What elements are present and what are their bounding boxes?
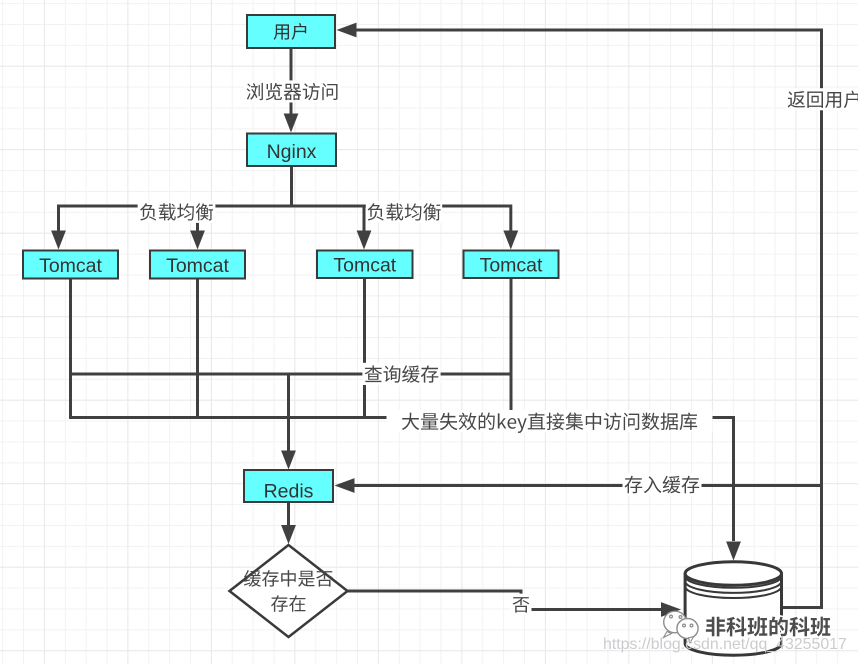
box Nginx xyxy=(247,134,336,167)
label 大量失效的key直接集中访问数据库 xyxy=(387,410,713,433)
svg-text:Tomcat: Tomcat xyxy=(333,255,396,277)
wire 用户 to Nginx xyxy=(284,48,299,133)
database cylinder xyxy=(685,562,781,655)
wire 存入缓存 DB to Redis xyxy=(335,478,822,493)
wire Tomcat3 down xyxy=(363,278,366,420)
box Tomcat 4 xyxy=(464,251,559,279)
wire Tomcat4 down xyxy=(510,278,513,420)
box Redis xyxy=(244,470,333,503)
label 负载均衡右 xyxy=(366,201,442,223)
svg-text:https://blog.csdn.net/qq_43255: https://blog.csdn.net/qq_43255017 xyxy=(603,636,847,653)
box 用户 xyxy=(247,15,335,48)
wire Nginx to Tomcat distribution xyxy=(51,166,518,250)
watermark wechat logo xyxy=(664,611,699,643)
wire return DB to 用户 (返回用户 path) xyxy=(337,23,822,608)
watermark url xyxy=(603,636,847,653)
svg-text:Nginx: Nginx xyxy=(267,141,317,163)
label 返回用户 xyxy=(786,88,858,110)
box Tomcat 2 xyxy=(150,251,245,279)
wire line B 大量失效 to database xyxy=(71,418,741,561)
svg-text:Redis: Redis xyxy=(264,481,314,503)
box Tomcat 1 xyxy=(23,251,118,279)
wire merge line A 查询缓存 xyxy=(71,373,512,376)
label 浏览器访问 xyxy=(244,80,341,102)
label 否 xyxy=(511,594,532,615)
svg-text:Tomcat: Tomcat xyxy=(480,255,543,277)
svg-text:Tomcat: Tomcat xyxy=(166,255,229,277)
wire 否 diamond to database xyxy=(348,591,682,617)
label 存入缓存 xyxy=(623,473,702,495)
label 负载均衡左 xyxy=(138,201,216,223)
decision diamond 缓存中是否存在 xyxy=(230,545,348,637)
label 查询缓存 xyxy=(362,363,440,385)
wire Tomcat1 down xyxy=(69,279,72,420)
wire Tomcat2 down xyxy=(196,279,199,420)
svg-text:Tomcat: Tomcat xyxy=(39,255,102,277)
wire line A to Redis xyxy=(281,374,296,470)
wire Redis to diamond xyxy=(281,502,296,544)
box Tomcat 3 xyxy=(317,251,413,279)
watermark 非科班的科班 xyxy=(706,617,830,637)
